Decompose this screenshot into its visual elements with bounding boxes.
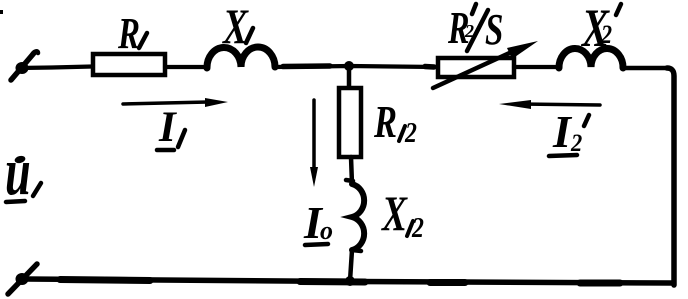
current arrow I2' bbox=[520, 104, 600, 105]
resistor R2'/S (variable) bbox=[438, 58, 514, 77]
inductor X12 bbox=[346, 180, 353, 181]
current arrow I1 bbox=[123, 102, 208, 104]
svg-text:2: 2 bbox=[600, 21, 612, 49]
terminal (bottom-left) bbox=[8, 264, 37, 294]
bottom junction dot bbox=[345, 276, 355, 286]
svg-text:2: 2 bbox=[411, 212, 424, 243]
wire bottom bbox=[25, 279, 672, 283]
wire X12 to bottom node bbox=[350, 250, 352, 281]
wire X2' to right corner bbox=[623, 66, 667, 71]
current arrow I0 bbox=[312, 100, 316, 170]
wire right side (vertical) bbox=[667, 68, 674, 285]
svg-text:X: X bbox=[221, 0, 249, 54]
wire R2'/S to X2' bbox=[514, 65, 560, 69]
wire X1 to R2'/S (through node A) bbox=[275, 66, 436, 67]
terminal (top-left input) bbox=[11, 53, 34, 80]
svg-text:S: S bbox=[485, 6, 503, 55]
resistor R12 bbox=[339, 88, 361, 157]
node A (top junction dot) bbox=[344, 61, 354, 71]
svg-text:X: X bbox=[380, 186, 408, 241]
resistor R1 bbox=[93, 54, 165, 75]
wire R12 to X12 bbox=[351, 157, 352, 184]
svg-text:u: u bbox=[5, 133, 31, 209]
inductor X2' bbox=[559, 48, 623, 68]
wire node A down to R12 bbox=[347, 66, 352, 88]
svg-text:R: R bbox=[117, 10, 140, 59]
svg-text:I: I bbox=[552, 106, 573, 157]
wire top-left segment bbox=[18, 67, 92, 69]
inductor X1 bbox=[207, 47, 275, 68]
edge tick mark bbox=[0, 10, 3, 14]
wire R1 to X1 bbox=[165, 65, 208, 69]
svg-text:2: 2 bbox=[404, 117, 417, 148]
svg-text:R: R bbox=[373, 96, 397, 147]
variable-resistor arrow through R2'/S bbox=[433, 50, 516, 88]
svg-text:I: I bbox=[158, 104, 177, 151]
svg-text:o: o bbox=[320, 216, 333, 245]
